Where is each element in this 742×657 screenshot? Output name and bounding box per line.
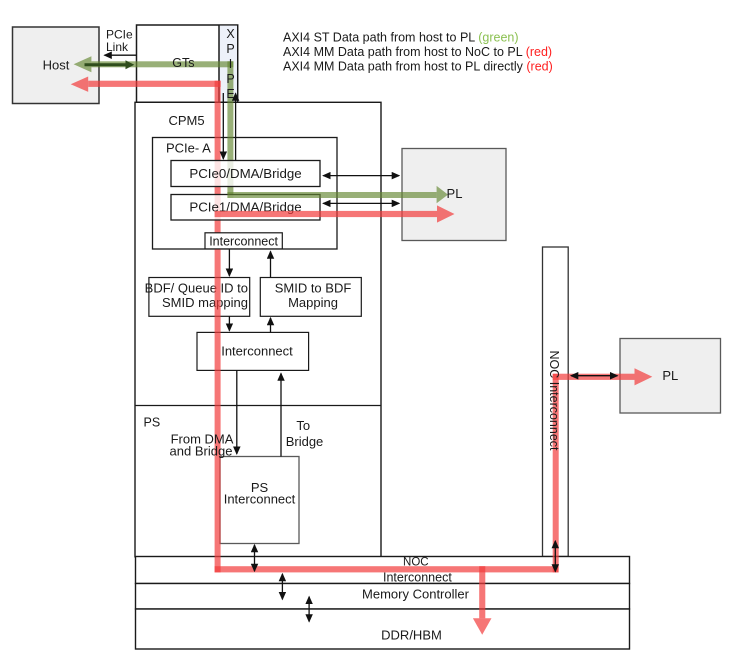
- DDR/HBM row: [136, 609, 630, 649]
- PCIe1/DMA/Bridge box: [171, 195, 320, 221]
- SMID to Interconnect1 up arrow: [270, 252, 272, 278]
- svg-text:PCIe- A: PCIe- A: [166, 141, 211, 156]
- Interconnect2 to PS Interconnect down arrow: [236, 370, 238, 453]
- svg-text:Host: Host: [43, 58, 70, 73]
- green path trunk (host to XPIPE down): [74, 56, 234, 198]
- PL box top: [402, 149, 506, 241]
- svg-text:To: To: [296, 418, 310, 433]
- SMID to BDF box: [260, 278, 361, 317]
- Memory Controller - DDR double arrow: [308, 597, 310, 622]
- GT box: [137, 25, 238, 102]
- svg-text:PL: PL: [662, 368, 678, 383]
- svg-text:Interconnect: Interconnect: [383, 571, 452, 585]
- svg-text:NOC Interconnect: NOC Interconnect: [547, 350, 561, 451]
- svg-text:Interconnect: Interconnect: [209, 235, 278, 249]
- svg-text:GTs: GTs: [172, 56, 194, 70]
- svg-text:and Bridge: and Bridge: [170, 444, 233, 459]
- NOC vertical column: [543, 247, 569, 557]
- PCIe Link arrow: [105, 54, 137, 56]
- svg-text:E: E: [226, 87, 234, 101]
- svg-text:Bridge: Bridge: [286, 434, 324, 449]
- svg-text:Interconnect: Interconnect: [221, 344, 293, 359]
- PCIe0 - PL double arrow: [323, 175, 399, 177]
- PCIe1 - PL double arrow: [323, 202, 399, 204]
- NOC column - PL right double arrow: [571, 375, 617, 377]
- svg-text:SMID mapping: SMID mapping: [162, 295, 248, 310]
- NOC column - NOC row double arrow: [554, 541, 556, 572]
- svg-text:PCIe0/DMA/Bridge: PCIe0/DMA/Bridge: [189, 166, 301, 181]
- svg-text:I: I: [229, 57, 232, 71]
- PS Interconnect - NOC double arrow: [254, 545, 256, 571]
- Interconnect1 to BDF down arrow: [228, 250, 230, 276]
- svg-text:Link: Link: [106, 40, 129, 54]
- svg-text:AXI4 MM Data path from host to: AXI4 MM Data path from host to NoC to PL…: [283, 45, 552, 59]
- svg-text:PS: PS: [144, 416, 161, 430]
- svg-text:X: X: [226, 27, 235, 41]
- svg-text:AXI4 ST Data path from host to: AXI4 ST Data path from host to PL (green…: [283, 30, 519, 44]
- PCIe0/DMA/Bridge box: [171, 161, 320, 187]
- PS Interconnect box: [220, 457, 299, 544]
- CPM5 box: [135, 102, 381, 557]
- Memory Controller row: [136, 584, 630, 610]
- XPIPE to PCIe0 down arrow: [222, 93, 224, 159]
- svg-text:BDF/ Queue ID to: BDF/ Queue ID to: [145, 281, 248, 296]
- BDF to Interconnect2 down arrow: [228, 317, 230, 331]
- PL box right: [620, 339, 721, 414]
- svg-text:Memory Controller: Memory Controller: [362, 587, 470, 602]
- NOC Interconnect row: [136, 557, 630, 584]
- BDF/Queue box: [145, 278, 250, 317]
- PS divider: [135, 405, 381, 407]
- red path to PL (over boxes): [215, 205, 653, 385]
- PS Interconnect to Interconnect2 up arrow: [280, 374, 282, 457]
- svg-text:NOC: NOC: [403, 556, 429, 568]
- svg-text:P: P: [226, 42, 234, 56]
- svg-text:DDR/HBM: DDR/HBM: [381, 628, 442, 643]
- svg-text:CPM5: CPM5: [169, 113, 205, 128]
- NOC - Memory Controller double arrow: [281, 574, 283, 599]
- PCIe-A box: [153, 138, 338, 250]
- Interconnect box 2: [197, 332, 309, 370]
- svg-text:SMID to BDF: SMID to BDF: [275, 281, 352, 296]
- svg-text:Mapping: Mapping: [288, 295, 338, 310]
- svg-text:AXI4 MM Data path from host to: AXI4 MM Data path from host to PL direct…: [283, 60, 553, 74]
- svg-text:Interconnect: Interconnect: [224, 492, 296, 507]
- green path to PL (over boxes): [227, 186, 448, 203]
- svg-text:PL: PL: [447, 186, 463, 201]
- Interconnect box 1: [205, 233, 282, 249]
- dark green GT arrow: [85, 60, 135, 69]
- red path trunk (host arrow, vertical trunk, NOC row, column, branches): [71, 77, 559, 635]
- PCIe0 to XPIPE up arrow: [235, 94, 237, 161]
- svg-text:P: P: [226, 72, 234, 86]
- Host box: [13, 27, 100, 104]
- Interconnect2 to SMID up arrow: [270, 318, 272, 332]
